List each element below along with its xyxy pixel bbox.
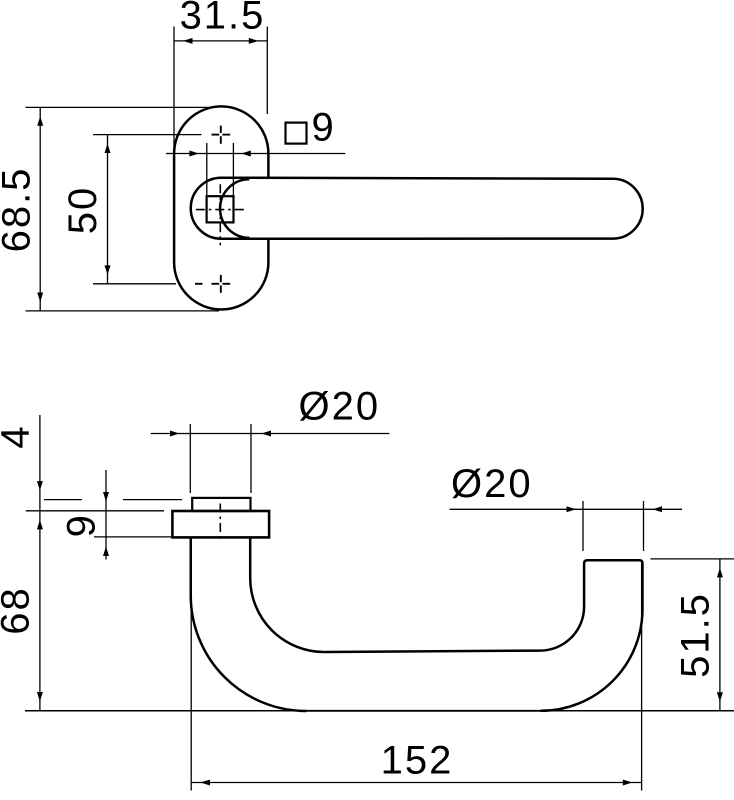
dimension Ø20 (grip end) lines and arrows xyxy=(450,501,683,551)
grip inner bottom edge xyxy=(324,651,540,652)
dimension 68.5 lines and arrows xyxy=(26,107,220,311)
svg-text:50: 50 xyxy=(61,186,105,235)
dimension Ø20 (neck) lines and arrows xyxy=(151,424,390,493)
lever left cap arc (joint between neck and grip) xyxy=(220,179,249,238)
dimension 4 arrows xyxy=(37,481,43,491)
svg-text:9: 9 xyxy=(60,513,104,537)
dimension 9 lines and arrows xyxy=(94,470,171,560)
spindle centerline vertical xyxy=(219,184,221,245)
dimension 31.5 lines and arrows xyxy=(174,27,267,156)
dimension 68 bottom arrow xyxy=(37,692,43,702)
dimension 152 lines and arrows xyxy=(191,540,641,791)
spindle centerline horizontal xyxy=(196,209,246,211)
dimension 51.5 lines and arrows xyxy=(650,559,734,711)
top screw hole center cross xyxy=(212,126,231,144)
svg-text:4: 4 xyxy=(0,424,38,448)
square spindle hole xyxy=(207,196,234,222)
dimension 4 extension lines xyxy=(26,500,182,511)
dimension 50 lines and arrows xyxy=(93,135,202,284)
grip inner curve (left bend) xyxy=(250,578,324,652)
grip end tube (left side, top, right side) xyxy=(584,560,642,609)
rosette outline (oval rose, gap where lever passes) xyxy=(174,106,268,309)
spindle cap box xyxy=(192,498,250,511)
dimension 4 / 68 shared dimension line xyxy=(39,415,41,711)
neck left edge xyxy=(190,537,193,595)
svg-text:152: 152 xyxy=(381,738,454,782)
svg-text:9: 9 xyxy=(312,106,336,150)
neck centerline (side view) xyxy=(219,504,221,540)
grip inner curve (right bend up) xyxy=(540,607,584,651)
grip outer curve (right big sweep) xyxy=(541,609,643,711)
grip bottom edge thicker segment xyxy=(304,710,543,712)
svg-text:68: 68 xyxy=(0,586,38,635)
svg-text:31.5: 31.5 xyxy=(180,0,266,38)
svg-text:68.5: 68.5 xyxy=(0,167,38,253)
dimension square-9 label xyxy=(286,123,307,144)
svg-text:Ø20: Ø20 xyxy=(451,462,533,506)
svg-text:Ø20: Ø20 xyxy=(299,384,381,428)
grip bottom reference line (thin, full width) xyxy=(25,710,734,712)
svg-text:51.5: 51.5 xyxy=(674,592,718,678)
grip outer curve (left bend) xyxy=(191,596,307,712)
dimension square-9 leader line, extension lines and arrows xyxy=(166,143,345,195)
lever outline (neck + grip bar, front view) xyxy=(191,178,643,239)
neck right edge xyxy=(249,537,252,578)
bottom screw hole center cross xyxy=(195,275,230,293)
rosette side profile (collar) xyxy=(172,511,269,537)
